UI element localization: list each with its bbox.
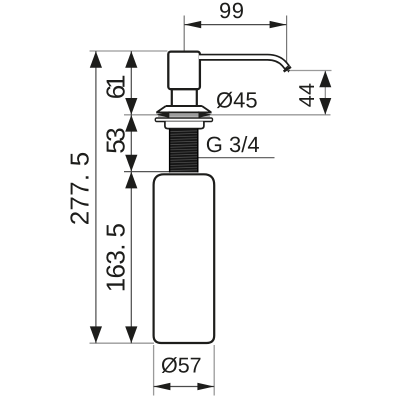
svg-text:G 3/4: G 3/4 — [206, 132, 260, 157]
svg-text:Ø57: Ø57 — [161, 354, 202, 378]
dimension 44 vertical line — [324, 71, 326, 115]
dimension Ø57 horizontal line — [154, 386, 215, 388]
arrow Ø45 right (pointing right at flange edge) — [199, 111, 212, 118]
thread texture — [169, 131, 198, 171]
flange trapezoid — [156, 106, 211, 112]
svg-text:277. 5: 277. 5 — [64, 152, 94, 226]
dimension 99 horizontal line — [184, 24, 286, 26]
arrow Ø57 right — [197, 383, 214, 390]
extension line: thread bottom level — [124, 171, 170, 173]
flange base gray band — [158, 113, 210, 117]
leader line under G 3/4 — [198, 157, 275, 159]
spout tip cut — [284, 67, 291, 72]
arrow Ø45 left (pointing left at flange edge) — [157, 111, 170, 118]
arrow 61 top — [125, 51, 137, 68]
pump neck — [172, 89, 197, 106]
locknut — [165, 122, 204, 129]
spout tip nub — [287, 70, 290, 73]
extension line: 44 top horizontal from spout tip — [289, 70, 332, 72]
arrow 44 bottom — [319, 98, 331, 115]
arrow 53 bottom — [125, 155, 137, 172]
svg-text:61: 61 — [100, 75, 130, 99]
extension line: bottle bottom right vertical — [213, 345, 215, 396]
washer plate — [155, 118, 212, 122]
arrow 53 top — [125, 115, 137, 132]
svg-text:Ø45: Ø45 — [216, 88, 258, 113]
arrow 99 right — [270, 21, 287, 28]
arrow 277.5 top — [90, 51, 102, 68]
extension line: 99 right vertical — [286, 16, 288, 70]
bottle — [154, 174, 215, 343]
spout (outer black) — [199, 57, 287, 67]
extension line: bottle bottom leftwards — [90, 342, 155, 344]
extension line: flange level long horizontal — [124, 114, 331, 116]
arrow 277.5 bottom — [90, 326, 102, 343]
thread left edge ribs — [169, 129, 171, 173]
dimension 277.5 vertical line — [95, 51, 97, 343]
pump head body — [168, 52, 200, 90]
extension line: head top leftwards — [90, 50, 168, 52]
arrow 163.5 top — [125, 172, 137, 189]
thread body — [169, 129, 198, 173]
arrow 61 bottom — [125, 98, 137, 115]
extension line: 99 left vertical — [183, 16, 185, 52]
svg-text:53: 53 — [100, 128, 130, 154]
extension line: bottle bottom left vertical — [153, 345, 155, 396]
dimension 61/53/163.5 shared vertical line — [130, 51, 132, 343]
svg-text:163. 5: 163. 5 — [100, 223, 130, 292]
spout (inner white) — [199, 57, 287, 66]
arrow 99 left — [184, 21, 201, 28]
arrow 163.5 bottom — [125, 326, 137, 343]
svg-text:44: 44 — [295, 83, 319, 108]
arrow 44 top — [319, 71, 331, 88]
arrow Ø57 left — [154, 383, 171, 390]
svg-text:99: 99 — [219, 0, 245, 23]
